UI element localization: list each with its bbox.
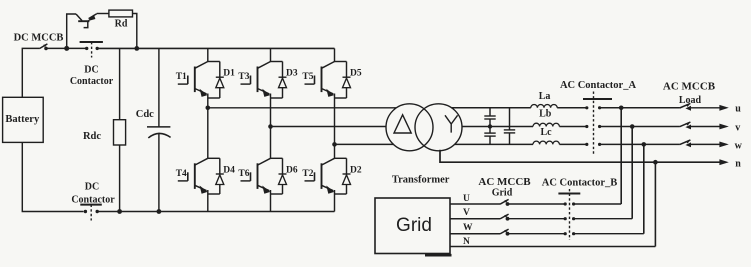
battery (Battery)	[3, 97, 44, 142]
wire battery negative to bottom rail	[22, 142, 83, 211]
svg-text:Battery: Battery	[5, 114, 40, 125]
wire phase B to transformer	[271, 126, 387, 128]
contactor DC Contactor actuator dashed	[91, 42, 93, 58]
contactor B bar	[558, 193, 580, 195]
svg-text:Transformer: Transformer	[392, 174, 450, 185]
wire grid V riser	[631, 127, 633, 219]
svg-text:Rdc: Rdc	[83, 131, 101, 142]
capacitor string C1 lower	[484, 127, 495, 145]
wire grid U riser	[620, 108, 622, 204]
terminal w arrow	[719, 141, 742, 152]
wire node A up to precharge branch	[67, 14, 76, 48]
label DC Contactor (top)	[70, 65, 114, 88]
node phase C dot	[332, 142, 337, 147]
terminal u arrow	[719, 104, 741, 115]
breaker AC MCCB Grid phase V	[500, 214, 566, 221]
node phase B dot	[268, 124, 273, 129]
wire DC MCCB to node A	[46, 47, 67, 49]
svg-text:Rd: Rd	[115, 19, 128, 30]
node u / grid U junction	[619, 106, 624, 111]
contactor B contacts phase V	[564, 217, 633, 220]
svg-text:AC MCCB: AC MCCB	[478, 176, 531, 188]
transformer secondary winding circle	[415, 104, 462, 151]
wire phase w from transformer	[455, 143, 534, 145]
wire node A to DC contactor	[67, 47, 87, 49]
wire leg1 midpoint vertical	[207, 94, 209, 159]
label Transformer	[392, 174, 450, 185]
svg-text:u: u	[735, 104, 741, 115]
wire T3 cell top	[271, 61, 283, 63]
contactor B contacts phase U	[564, 202, 622, 205]
breaker AC MCCB Load phase v	[680, 122, 720, 129]
wire T5 cell bottom	[335, 97, 347, 99]
wire phase C to transformer	[335, 143, 395, 145]
wire grid N riser	[654, 162, 656, 246]
capacitor C2	[504, 108, 515, 145]
wire T4 cell bottom	[208, 193, 220, 195]
label AC Contactor_B	[542, 178, 618, 189]
junction Cdc / bottom rail	[157, 209, 162, 214]
svg-text:n: n	[735, 158, 741, 169]
wire T2 cell bottom	[335, 193, 347, 195]
grid box shadow	[425, 254, 452, 257]
svg-text:w: w	[735, 141, 743, 152]
transistor Q1 base bar	[78, 20, 89, 22]
wire phase u from transformer	[451, 107, 531, 109]
svg-text:V: V	[463, 208, 470, 218]
svg-text:W: W	[463, 223, 473, 233]
contactor A bar	[583, 98, 612, 100]
wire T4 cell top	[208, 157, 220, 159]
contactor A contacts phase u	[585, 106, 601, 109]
svg-text:T1: T1	[176, 72, 187, 82]
label DC MCCB	[14, 33, 64, 44]
wire phase v contactor to breaker	[598, 126, 679, 128]
svg-text:D5: D5	[350, 69, 362, 79]
contactor DC Contactor bottom bar	[80, 204, 102, 206]
transistor Q1 collector lead	[76, 14, 82, 21]
wire phase w inductor to contactor	[559, 143, 588, 145]
svg-text:DC MCCB: DC MCCB	[14, 33, 64, 44]
transformer wye symbol	[445, 115, 458, 132]
svg-text:T4: T4	[176, 169, 187, 179]
breaker DC MCCB contact dot	[44, 47, 48, 51]
wire phase u inductor to contactor	[557, 107, 588, 109]
inductor La	[531, 91, 557, 108]
wire T2 emitter to bottom rail	[334, 190, 336, 212]
wire T6 emitter to bottom rail	[270, 190, 272, 212]
svg-text:D3: D3	[286, 69, 298, 79]
svg-text:Contactor: Contactor	[70, 76, 114, 87]
contactor A contacts phase w	[585, 143, 601, 146]
svg-text:T5: T5	[302, 72, 313, 82]
svg-text:Grid: Grid	[396, 215, 432, 236]
resistor Rdc	[83, 120, 126, 145]
svg-text:T2: T2	[302, 169, 313, 179]
capacitor string C1 upper	[484, 108, 495, 127]
transformer delta symbol	[394, 115, 411, 133]
wire transformer neutral	[440, 150, 720, 162]
breaker AC MCCB Load phase u	[680, 103, 720, 110]
node v / grid V junction	[630, 124, 635, 129]
svg-text:U: U	[463, 194, 470, 204]
wire phase v inductor to contactor	[559, 126, 588, 128]
capacitor Cdc bottom plate (curved)	[148, 133, 170, 137]
wire Cdc bottom	[158, 133, 160, 212]
breaker AC MCCB Grid phase U	[500, 199, 566, 206]
node A junction	[64, 46, 69, 51]
wire grid W riser	[643, 144, 645, 233]
svg-text:D4: D4	[223, 165, 235, 175]
junction Rd / top rail	[134, 46, 139, 51]
breaker AC MCCB Grid phase W	[500, 229, 566, 236]
svg-text:Load: Load	[679, 95, 702, 106]
wire bottom DC rail left	[99, 211, 335, 213]
transistor Q1 emitter lead with arrow	[87, 14, 97, 21]
svg-text:Lb: Lb	[539, 109, 552, 120]
contactor DC Contactor contact dots	[85, 47, 99, 50]
wire Cdc top	[158, 48, 160, 127]
contactor B contacts phase W	[564, 232, 644, 235]
contactor A actuator dashed	[593, 92, 595, 155]
transistor IGBT T5	[302, 62, 334, 97]
inductor Lb	[533, 109, 559, 127]
transistor Q1 base stub	[84, 21, 88, 27]
wire grid U	[450, 194, 500, 204]
terminal n arrow	[719, 158, 741, 169]
svg-text:AC Contactor_B: AC Contactor_B	[542, 178, 618, 189]
transistor IGBT T3	[238, 62, 270, 97]
label DC Contactor (bottom)	[71, 181, 115, 205]
wire Q1 emitter to resistor Rd	[97, 13, 109, 15]
svg-text:DC: DC	[84, 65, 98, 76]
diode D1	[216, 62, 235, 99]
svg-text:AC MCCB: AC MCCB	[663, 81, 716, 93]
wire leg2 midpoint vertical	[270, 94, 272, 159]
wire T5 cell top	[335, 61, 347, 63]
junction Rdc / bottom rail	[117, 209, 122, 214]
diode D2	[343, 158, 362, 194]
wire Rdc top	[119, 48, 121, 119]
node n / grid N junction	[653, 160, 658, 165]
wire leg3 midpoint vertical	[334, 94, 336, 159]
svg-text:T6: T6	[238, 169, 249, 179]
wire T1 cell top	[208, 61, 220, 63]
wire grid N	[450, 237, 655, 247]
capacitor Cdc top plate	[147, 126, 170, 128]
breaker AC MCCB Load phase w	[680, 140, 720, 147]
wire phase v from transformer	[462, 126, 533, 128]
wire top DC rail	[97, 47, 334, 49]
svg-text:La: La	[539, 91, 551, 102]
contactor DC Contactor bottom contact dots	[84, 210, 99, 213]
diode D4	[216, 158, 235, 194]
svg-text:Contactor: Contactor	[71, 194, 115, 205]
wire grid W	[450, 223, 500, 234]
wire resistor Rd down to top rail	[133, 14, 137, 49]
svg-text:D1: D1	[223, 69, 235, 79]
transistor IGBT T2	[302, 158, 334, 193]
wire top rail to T3	[270, 48, 272, 61]
node w / grid W junction	[642, 142, 647, 147]
node phase A dot	[206, 106, 211, 111]
transistor IGBT T6	[238, 158, 270, 193]
wire phase w contactor to breaker	[598, 143, 679, 145]
svg-text:N: N	[463, 237, 470, 247]
svg-text:T3: T3	[238, 72, 249, 82]
wire T6 cell top	[271, 157, 283, 159]
label Cdc	[136, 109, 154, 120]
label AC MCCB Load	[663, 81, 716, 107]
breaker DC MCCB blade	[39, 44, 47, 49]
transistor IGBT T4	[176, 158, 208, 193]
svg-text:Lc: Lc	[540, 127, 552, 138]
inductor Lc	[533, 127, 559, 144]
svg-text:D2: D2	[350, 165, 362, 175]
diode D6	[279, 158, 298, 194]
wire phase u contactor to breaker	[598, 107, 679, 109]
terminal v arrow	[719, 122, 740, 133]
wire T4 emitter to bottom rail	[207, 190, 209, 212]
svg-text:DC: DC	[85, 181, 99, 192]
wire T1 cell bottom	[208, 97, 220, 99]
diode D5	[343, 62, 362, 99]
contactor B actuator dashed	[569, 189, 571, 240]
transistor IGBT T1	[176, 62, 208, 97]
node C1 / phase v junction	[488, 124, 492, 128]
svg-text:v: v	[735, 122, 740, 133]
contactor DC Contactor top bar	[80, 41, 103, 43]
wire Rdc bottom	[119, 145, 121, 212]
svg-text:Grid: Grid	[492, 188, 513, 199]
svg-text:AC Contactor_A: AC Contactor_A	[560, 80, 637, 91]
wire grid V	[450, 208, 500, 219]
transformer primary winding circle	[386, 104, 433, 151]
wire battery positive to top rail	[22, 48, 39, 97]
resistor Rd	[109, 10, 133, 30]
wire phase A to transformer	[208, 107, 397, 109]
contactor DC Contactor bottom actuator dashed	[90, 205, 92, 221]
label AC Contactor_A	[560, 80, 637, 91]
grid source box (Grid)	[375, 198, 450, 254]
contactor A contacts phase v	[585, 125, 601, 128]
wire T6 cell bottom	[271, 193, 283, 195]
svg-text:D6: D6	[286, 165, 298, 175]
wire T2 cell top	[335, 157, 347, 159]
wire top rail to T1	[207, 48, 209, 61]
wire T3 cell bottom	[271, 97, 283, 99]
diode D3	[279, 62, 298, 99]
svg-text:Cdc: Cdc	[136, 109, 154, 120]
wire top rail to T5	[334, 48, 336, 61]
label AC MCCB Grid	[478, 176, 531, 199]
